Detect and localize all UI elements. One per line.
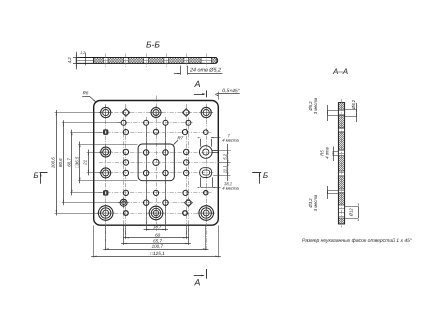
dim 24 отв leader [188,73,223,75]
section A-A step line 12 [338,190,344,192]
hole E4 pocket [163,170,168,175]
hole H1 corner bottom-left Ø12 cbore [97,204,115,222]
centerline col x=186.2 [186,104,188,239]
hole C2 [123,130,128,135]
section A-A step line 1 [338,110,344,112]
A-A dim Ø3,2 ext a [327,190,338,192]
hole C4 [182,130,187,135]
svg-text:А–А: А–А [332,67,348,76]
right ext y=150.8 [212,150,231,152]
hole A4 Ø5.2 with chamfer square [182,109,190,117]
left dim 60,7 line [71,130,73,196]
svg-text:4 отв: 4 отв [325,146,330,158]
ext col 105.8 bottom [105,225,107,250]
ext col 125.9 bottom [125,225,127,239]
svg-text:5,2: 5,2 [222,153,227,159]
hole M1 [123,160,128,165]
bottom dim 60 line [123,237,188,239]
bottom dim 18,7 line [144,229,168,231]
centerline col x=125.9 [125,104,127,239]
A-A dim R5 ext a [333,151,339,153]
right ext y=175.5 [213,175,231,177]
svg-text:4 места: 4 места [222,186,239,191]
section A-A hatch block 2 [338,115,344,128]
note 0,5×45° leader [217,93,240,95]
hole C5 [204,130,209,135]
hole H5 corner bottom-right Ø12 cbore [197,204,215,222]
section hatch block 2 [108,58,124,64]
dim 24 отв ext line a [180,66,182,75]
svg-text:Ø8,2: Ø8,2 [351,99,356,110]
svg-text:Б: Б [263,171,268,180]
section hole centerline 6 [206,54,208,68]
hole F1 square pin [103,190,108,195]
dim 4.2 ext top [73,57,80,59]
centerline row D [99,152,214,154]
A-A dim Ø5,2 ext b [327,115,338,117]
hole A1 corner top-left Ø5.2 csk [99,106,112,119]
centerline row H [99,213,214,215]
hole A3 top-center Ø5.2 csk [149,106,162,119]
hole E6 obround slot [200,168,212,178]
dim 18,1 line [201,187,213,189]
section hole centerline 2 [125,54,127,68]
bottom dim 100,7 line [103,249,208,251]
section A-A step line 10 [338,128,344,130]
section inner line [85,53,87,66]
hole C3 [153,129,158,134]
left dim □36,5 line [79,142,81,184]
svg-text:11,1: 11,1 [222,165,227,173]
ext col 188.4 bottom [188,225,190,245]
hole A5 corner top-right Ø5.2 csk [200,106,213,119]
section A-A hatch block 6 [338,193,344,205]
section A-A step line 9 [338,216,344,218]
section A-A centerline [341,99,343,228]
ext row A left [55,112,101,114]
svg-text:60: 60 [155,233,161,238]
hole D6 slot side walls [200,139,202,147]
section hatch block 6 [189,58,202,64]
hole C1 square pin [103,130,108,135]
svg-text:А: А [193,277,200,287]
svg-text:3 места: 3 места [313,194,318,211]
svg-text:65,7: 65,7 [153,238,162,243]
hole M3 [184,160,189,165]
svg-text:Ø12: Ø12 [348,208,353,218]
section A-A hatch block 7 [338,218,344,224]
ext sq bottom left [78,180,137,182]
hole D6 special T-slot circle [200,146,213,159]
hole D4 pocket [163,150,168,155]
hole F3 [153,190,158,195]
centerline col x=123.6 [123,118,125,245]
section A-A step line 6 [338,175,344,177]
svg-text:3 места: 3 места [313,97,318,114]
ext col 186.2 bottom [186,225,188,239]
ext col 165.4 bottom [165,125,167,231]
svg-text:Размер неуказанных фасок отвер: Размер неуказанных фасок отверстий 1 х 4… [302,237,412,244]
A-A dim Ø12 line [358,206,360,218]
dim 4.2 line [76,52,78,70]
dim 7 arrows [198,137,201,138]
hole H2 [124,211,129,216]
section mark Б right bar [252,172,261,174]
section A-A hatch block 4 [338,156,344,171]
svg-text:18,7: 18,7 [153,224,162,229]
centerline row G [118,202,195,204]
svg-text:100,7: 100,7 [152,244,164,249]
view arrow A bottom line [194,275,204,277]
hole E3 pocket [143,170,148,175]
svg-text:Б-Б: Б-Б [146,39,160,49]
dim 7 leader [211,137,221,139]
right dim line [227,144,229,181]
ext col 205.9 bottom [205,225,207,250]
ext sq top left [78,144,137,146]
hole F2 [123,190,128,195]
section A-A step line 2 [338,114,344,116]
hole E5 [184,170,189,175]
hole B2 [144,120,149,125]
svg-text:100,6: 100,6 [51,157,56,169]
centerline row C [99,132,212,134]
ext row G left [62,202,121,204]
section hole centerline 3 [146,54,148,68]
A-A dim Ø8,2 ext b [345,116,357,118]
section hole mid step 5 [184,60,189,62]
hole H4 [183,211,188,216]
dim 18,1 arrows [198,187,201,188]
dim 24 отв arrow line [174,73,180,75]
hole B3 [163,120,168,125]
section hatch block 1 [94,58,104,64]
A-A dim R5 ext b [333,155,339,157]
ext row D left [87,152,103,154]
section A-A hatch block 5 [338,177,344,189]
svg-text:60,7: 60,7 [66,158,71,167]
section hatch block 4 [148,58,164,64]
hole H3 bottom-center Ø12 cbore [148,205,165,222]
section hole mid step 2 [124,60,129,62]
centerline col x=206.2 [206,104,208,250]
hole B4 [186,120,191,125]
svg-text:R6: R6 [83,90,89,95]
svg-text:□125,1: □125,1 [150,251,165,256]
section A-A step line 13 [338,192,344,194]
section hole mid step 1 [103,60,108,62]
hole G4 Ø5.2 with chamfer square [184,199,192,207]
hole D5 [184,149,189,154]
section hole centerline 1 [105,54,107,68]
ext row B left [62,122,121,124]
centerline col x=105.7 [105,104,107,250]
hole D2 [123,149,128,154]
ext row F left [70,192,102,194]
plate outline [94,101,219,226]
centerline col x=146.0 [146,117,148,231]
ext plate right bottom [218,225,220,257]
A-A dim Ø8,2 line [356,103,358,122]
note R6 leader [82,96,96,102]
note R7 leader [174,140,178,144]
left dim 100,6 line [56,110,58,216]
hole B1 [121,120,126,125]
hole D1 Ø5.2 csk [99,145,112,158]
svg-text:80,6: 80,6 [58,158,63,167]
note 0,5x45 leader bend [215,93,218,96]
section A-A hatch block 3 [338,133,344,150]
view arrow A top tick [206,91,208,98]
bottom dim □125,1 line [91,256,221,258]
ext row H left [55,213,99,215]
section hole mid step 4 [164,60,169,62]
A-A dim Ø5,2 line [327,105,329,121]
hole F4 [183,190,188,195]
inner square pocket outline [138,144,174,181]
hole G2 [144,200,149,205]
svg-text:4,2: 4,2 [67,57,72,64]
section mark Б left arrow line [40,173,42,184]
centerline col x=166.2 [165,117,167,231]
svg-text:21: 21 [83,159,88,165]
A-A dim Ø12 ext a [345,206,359,208]
svg-text:Б: Б [33,171,38,180]
hole E1 Ø5.2 csk [99,166,112,179]
hole E6 slot side walls [200,177,202,187]
section A-A hatch block 1 [338,103,344,110]
section Б-Б bar outline [76,58,217,64]
right ext y=162.7 [219,162,231,164]
left dim 21 line [88,150,90,176]
view arrow A top line [194,94,204,96]
centerline col x=188.4 [188,118,190,245]
section hole centerline 4 [166,54,168,68]
section hatch block 3 [128,58,144,64]
hole G1 [119,198,129,208]
svg-text:4 места: 4 места [222,138,239,143]
svg-text:R7: R7 [177,135,183,140]
bottom dim 65,7 line [121,243,191,245]
section A-A step line 7 [338,208,344,210]
section hole mid step 3 [144,60,149,62]
A-A dim Ø12 ext b [345,218,359,220]
section A-A step line 5 [338,172,344,174]
hole F5 [204,191,208,195]
centerline row B [118,122,195,124]
section A-A bar outline [338,103,344,224]
ext row C left [70,132,102,134]
section hole mid step 6 [201,60,211,62]
section hatch block 7 [211,58,216,64]
ext plate left bottom [93,225,95,257]
ext col 146 bottom [146,125,148,231]
section mark Б left bar [40,172,48,174]
section mark Б right arrow line [259,173,261,184]
hole G3 [163,200,168,205]
view arrow A bottom tick [206,269,208,279]
section hatch block 5 [169,58,184,64]
section hole centerline 5 [186,54,188,68]
hole M2 center [153,159,159,165]
dim 18,1 leader [212,187,220,189]
svg-text:1,2: 1,2 [80,51,86,55]
left dim 80,6 line [63,120,65,205]
section A-A step line 3 [338,150,344,152]
hole D3 pocket [143,150,148,155]
hole A2 Ø5.2 with chamfer square [122,109,130,117]
ext col 123.6 bottom [123,225,125,245]
A-A dim Ø3,2 line [327,186,329,199]
A-A dim R5 line [333,147,335,162]
svg-text:□36,5: □36,5 [74,156,79,168]
ext row E left [87,172,103,174]
centerline row F [99,192,212,194]
dim 24 отв ext line b [187,66,189,75]
svg-text:А: А [193,79,200,89]
section left segment mid line [76,60,93,62]
hole E2 [123,170,128,175]
section left end line [93,58,95,64]
A-A dim Ø5,2 ext a [327,110,338,112]
A-A dim Ø3,2 ext b [327,193,338,195]
svg-text:24 отв Ø5,2: 24 отв Ø5,2 [189,67,221,73]
centerline col x=156 (vertical axis) [156,96,158,232]
ext plate right top [218,92,220,100]
dim 4.2 ext bottom [73,63,80,65]
A-A dim Ø8,2 ext a [345,109,357,111]
section A-A step line 11 [338,131,344,133]
section A-A step line 4 [338,153,344,155]
hole D6 slot channel right [212,150,219,152]
centerline row A [99,112,214,114]
centerline row M (horizontal axis) [99,162,220,164]
section A-A step line 8 [338,212,344,214]
centerline row E [99,172,214,174]
